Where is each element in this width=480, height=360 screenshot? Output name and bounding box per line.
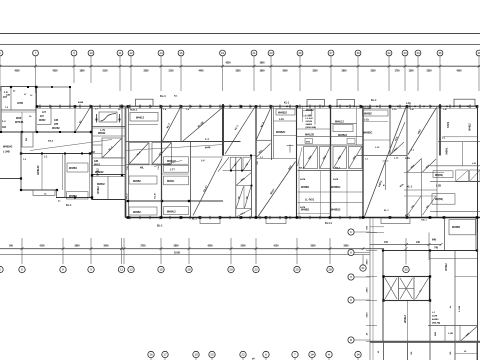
balcony bump [307,100,325,107]
column [91,174,93,176]
grid line axis 14 [160,56,162,91]
lower grid stem [195,358,197,360]
stub wall left [0,178,22,180]
svg-text:2#7B: 2#7B [300,207,306,209]
svg-text:4800: 4800 [366,259,369,265]
box W#8B2J [276,109,295,115]
porch below [381,218,410,224]
stair divider [413,277,415,301]
svg-text:KL-B: KL-B [155,193,157,199]
svg-text:KB-4: KB-4 [299,167,305,170]
box W#8B1 [67,192,89,200]
wall [64,154,66,198]
wall pair [89,154,91,198]
grid bubble axis 25 [297,50,303,56]
svg-text:3100: 3100 [102,71,108,73]
svg-text:3000: 3000 [103,245,109,247]
small cell [22,132,33,147]
svg-text:W8(B2): W8(B2) [435,175,443,177]
wing grid bubble b [348,229,354,235]
wall [462,142,464,166]
beam [430,181,480,183]
svg-text:1800: 1800 [79,71,85,73]
beam [404,172,444,174]
svg-text:KL-1: KL-1 [66,204,72,207]
svg-text:35: 35 [404,268,408,272]
svg-text:4200: 4200 [225,61,231,64]
stair diagonal [400,278,413,299]
svg-text:15: 15 [159,268,163,272]
svg-text:2800: 2800 [173,245,179,247]
wing dim tick [366,300,377,302]
stack diag row3b [245,187,252,209]
svg-text:2800: 2800 [341,71,347,73]
svg-text:18: 18 [187,268,191,272]
column [161,200,163,202]
beam [92,165,126,167]
columns bottom [127,216,479,219]
svg-text:3300: 3300 [343,245,349,247]
bottom grid bubble 31 [360,265,366,271]
diagonal [304,147,317,168]
bottom dimension numbers [9,244,349,247]
wall [20,132,22,190]
stack diag row4 [236,209,251,217]
diagonal [231,158,241,171]
column [382,275,384,277]
border line top [0,33,480,35]
box W#8#L [164,176,189,185]
svg-text:W#8L2: W#8L2 [446,263,448,271]
grid line axis 19 [222,56,224,91]
svg-text:3200: 3200 [312,71,318,73]
big diagonal KL-2 [193,159,222,216]
diagonal cell KL-3 [256,107,271,140]
svg-text:(W8.2B): (W8.2B) [432,323,440,325]
beam double [92,174,125,176]
lower grid stem [242,358,244,360]
svg-text:2#7B: 2#7B [432,316,438,318]
wall [74,106,76,132]
wall pair [271,106,273,160]
stack wall right [251,156,253,218]
beam [236,185,252,187]
bottom grid bubble 35 [403,266,409,272]
svg-text:W#8#L2: W#8#L2 [167,212,176,214]
diagonal [456,170,468,180]
lower grid stem [265,358,267,360]
lower grid stem [328,358,330,360]
wing short line [370,232,384,234]
svg-text:14: 14 [159,51,163,55]
lower grid stem [357,358,359,360]
diagonal brace KL [76,107,91,132]
beam [236,208,252,210]
detail post [96,119,98,121]
diagonal KL-5 [392,122,406,154]
wing beam [428,325,478,327]
svg-text:28: 28 [328,268,332,272]
svg-text:4200: 4200 [52,70,58,73]
diag cell [423,159,437,172]
diagonal [130,143,149,164]
svg-text:W#8L2D: W#8L2D [305,134,314,136]
svg-text:3700: 3700 [140,245,146,247]
lower grid stem [211,358,213,360]
svg-text:W#8B2C: W#8B2C [276,132,286,134]
beam top of big diag cell [191,156,224,158]
grid bubble axis 39 [476,50,480,56]
lower grid bubble # [326,351,332,357]
lower grid stem [164,358,166,360]
wing dim tick [366,325,377,327]
svg-text:11: 11 [119,51,122,55]
diagonal KL-1 tall [225,108,255,155]
beam [430,211,480,213]
svg-text:3300: 3300 [367,312,369,318]
svg-text:2#7B: 2#7B [300,179,306,181]
svg-text:W#8B2: W#8B2 [133,212,141,214]
svg-text:W#8L2: W#8L2 [98,186,100,194]
svg-text:W#8L2: W#8L2 [98,168,100,176]
stack diag row2 [237,173,252,185]
bottom grid bubble 5 [0,266,3,272]
beam [126,164,172,166]
svg-text:KL-1: KL-1 [407,187,413,189]
beam [297,128,331,130]
beam [331,123,357,125]
svg-text:L-B: L-B [410,109,414,111]
svg-text:1#B: 1#B [94,161,99,163]
grid line axis 25 [299,56,301,91]
svg-text:3300: 3300 [370,71,376,73]
svg-text:3300: 3300 [143,71,149,73]
svg-text:KL-1: KL-1 [405,215,411,217]
svg-text:4#0B: 4#0B [78,101,84,104]
grid line axis 21 [253,56,255,91]
svg-text:4200: 4200 [207,244,213,247]
svg-text:W#8B2: W#8B2 [452,226,461,229]
wall step [56,190,58,198]
diagonal cell [152,143,172,165]
svg-text:W#8#L: W#8#L [167,181,175,183]
wing bubble leader [354,252,370,254]
column [429,249,431,251]
beam stirrup ticks [40,105,470,220]
svg-text:W#8L2J: W#8L2J [335,122,344,124]
beam double2 [92,175,125,177]
svg-text:L-B: L-B [472,163,476,165]
svg-text:W#6L2: W#6L2 [470,123,472,131]
diag cell [408,196,422,215]
svg-text:4400: 4400 [198,70,204,73]
beam bottom [21,189,58,191]
wall thin [320,171,322,218]
svg-text:34: 34 [416,51,420,55]
beam [223,170,252,172]
svg-text:L-1#2: L-1#2 [306,115,312,117]
wing bubble leader [354,299,370,301]
long diagonal KB7 [365,107,407,217]
svg-text:L-1b: L-1b [392,109,397,111]
beam [126,141,162,143]
beam vertical [421,158,423,218]
svg-text:11: 11 [120,268,123,272]
wing wall [444,326,446,342]
svg-text:W#8B2: W#8B2 [301,186,310,189]
box W8B2 [433,171,453,178]
spec text block [306,115,317,129]
svg-text:30: 30 [356,51,360,55]
beam vertical [273,106,275,159]
svg-text:W#8B2: W#8B2 [364,108,372,110]
extra stems [363,238,406,265]
diagonal KL-7 [163,107,181,141]
wing dim tick2 [428,243,431,246]
svg-text:W'S002: W'S002 [95,171,104,174]
box empty [333,125,353,132]
dim symbol phi [289,145,291,153]
lower grid bubble 16 [148,351,154,357]
column [476,249,478,251]
svg-text:1#B: 1#B [54,120,59,122]
box 1-7 [164,165,189,172]
beam vertical [477,106,479,232]
column [382,249,384,251]
svg-text:4500: 4500 [456,70,462,73]
porch below [200,218,220,224]
svg-text:2#7B: 2#7B [333,179,339,181]
beam [274,135,297,137]
wing wall [459,326,461,342]
beam [162,173,189,175]
svg-text:2#7#B: 2#7#B [306,121,313,123]
beam [298,202,364,204]
svg-text:1800: 1800 [259,71,265,73]
svg-text:2100: 2100 [168,71,174,73]
detail box with curve [99,112,117,122]
beam left block 2 [1,111,36,113]
svg-text:#6L: #6L [140,168,145,170]
wing beam [383,250,478,252]
balcony bump [454,99,475,106]
top dimension ticks [0,65,480,68]
beam [438,141,480,143]
main top beam [36,105,478,107]
balcony bump [337,100,355,107]
beam double [92,126,125,128]
grid line axis 7 [35,56,37,93]
svg-text:4#2: 4#2 [2,126,7,129]
porch below [33,190,55,196]
svg-text:22: 22 [254,268,258,272]
columns [0,131,92,133]
wing wall [454,251,456,342]
grid line axis 33 [404,56,406,91]
grid bubble axis 27 [328,50,334,56]
svg-text:20: 20 [229,268,233,272]
svg-text:#7B: #7B [54,124,59,126]
diagonal [153,143,172,164]
diagonal [334,147,347,168]
svg-text:W7#4B: W7#4B [15,121,24,124]
wing wall thin [407,301,409,342]
box W#8L#2 [164,157,189,164]
lower grid bubble 19 [193,351,199,357]
grid line axis 32 [388,56,390,91]
beam vertical [222,104,224,156]
main top beam inner [36,108,478,110]
grid bubble axis 11 [117,50,123,56]
svg-text:KL-1: KL-1 [371,99,377,102]
grid line axis 1 [0,56,1,91]
wing wall [477,232,479,360]
svg-text:L-1b: L-1b [406,103,411,105]
wing dim tick [366,341,377,343]
small box [303,111,312,117]
svg-text:L-B: L-B [443,109,447,111]
diagonal cell [102,138,122,158]
bottom grid bubble 11 [118,266,124,272]
balcony bump [136,99,154,106]
pointer line [154,161,182,167]
wing box [449,220,476,235]
svg-text:KL-4: KL-4 [160,95,166,98]
svg-text:L-7b: L-7b [100,129,106,132]
bottom grid bubble 22 [253,266,259,272]
bottom grid bubble 6 [19,266,25,272]
svg-text:KL1-1: KL1-1 [325,222,333,225]
diagonal [103,139,122,158]
svg-text:W#8B1: W#8B1 [69,167,78,170]
grid line axis 10 [90,56,92,83]
svg-text:1#: 1# [310,353,314,357]
svg-text:W8002: W8002 [98,133,106,135]
main bottom beam [126,217,480,219]
svg-text:12: 12 [129,268,133,272]
wing dim tick2 [405,243,408,246]
beam [298,170,364,172]
wing wall below [454,343,456,360]
diagonal [349,147,362,168]
wing wall below [383,343,385,360]
small diag cell [243,157,252,170]
column [188,200,190,202]
svg-text:1#: 1# [356,353,360,357]
bottom grid bubble 25 [294,266,300,272]
diag square [349,147,363,169]
beam [92,153,102,155]
wall [107,176,109,199]
svg-text:L-1: L-1 [205,138,209,141]
bottom grid bubble 15 [158,266,164,272]
svg-text:X: X [350,275,352,279]
svg-text:19: 19 [194,353,198,357]
svg-text:7#b-1: 7#b-1 [421,220,427,222]
stair diagonal [416,278,429,299]
grid line axis 34 [417,56,419,91]
box W#8B2 left2 [129,207,157,215]
wing bubble leader [354,339,370,341]
wing wall below [407,343,409,360]
small diag frag [298,148,303,167]
wing dim line [370,244,441,246]
diagonal [320,147,330,168]
svg-text:KL-2: KL-2 [127,193,129,199]
grid line axis 23 [270,56,272,91]
beam top of big cell [256,158,297,160]
wall divider 2 [21,112,23,132]
svg-text:W#2: W#2 [16,116,22,120]
lower grid stem [311,358,313,360]
wing wall right cell [444,218,446,251]
grid bubble axis 7 [33,50,39,56]
grid bubble axis 19 [220,50,226,56]
svg-text:W4#B2: W4#B2 [52,127,60,130]
small diag cell [390,142,404,155]
grid bubble axis 14 [158,50,164,56]
lower grid bubble 17 [162,351,168,357]
bottom dimension line 2 [0,253,370,255]
boxes x363-390 [363,110,389,116]
grid bubble axis 21 [251,50,257,56]
beam [298,213,331,215]
wing thick beam [370,341,480,343]
diagonal [243,158,251,171]
svg-text:A: A [265,353,267,357]
bottom grid bubble 28 [327,266,333,272]
beam [1,131,91,133]
wall divider [10,87,12,111]
svg-text:20: 20 [210,353,214,357]
svg-text:17: 17 [163,353,167,357]
diagonal KL-2B [183,108,223,142]
svg-text:3000: 3000 [282,71,288,73]
bottom dimension ticks [21,247,408,250]
beam bottom mid [92,199,126,201]
column [74,197,76,199]
lower grid bubble 22 [240,351,246,357]
tall cell above beam [37,87,71,106]
dim extension line [385,160,387,190]
beam [129,124,159,126]
wing wall below [429,343,431,360]
detail post line [96,114,98,123]
wing dim line A [369,218,371,360]
column [20,177,22,179]
wing grid bubble U [348,297,354,303]
diagonal [470,170,480,180]
box W#8B1 [67,163,88,172]
beam vertical [389,106,391,156]
svg-text:25: 25 [298,51,302,55]
svg-text:2500: 2500 [240,245,246,247]
svg-text:6#B#L: 6#B#L [447,147,449,154]
wing dim tick [366,250,377,252]
column [250,155,252,157]
svg-text:W#8B2C: W#8B2C [363,133,373,135]
beam [443,136,477,138]
diagonal KB-5 [461,327,477,341]
svg-text:2300: 2300 [426,71,432,73]
beam [256,139,272,141]
diag square [320,147,331,169]
beam [362,139,390,141]
main beam mid-left [21,153,92,155]
wing wall right cell 2 [475,218,477,251]
svg-text:31: 31 [361,266,365,270]
beam [430,165,480,167]
